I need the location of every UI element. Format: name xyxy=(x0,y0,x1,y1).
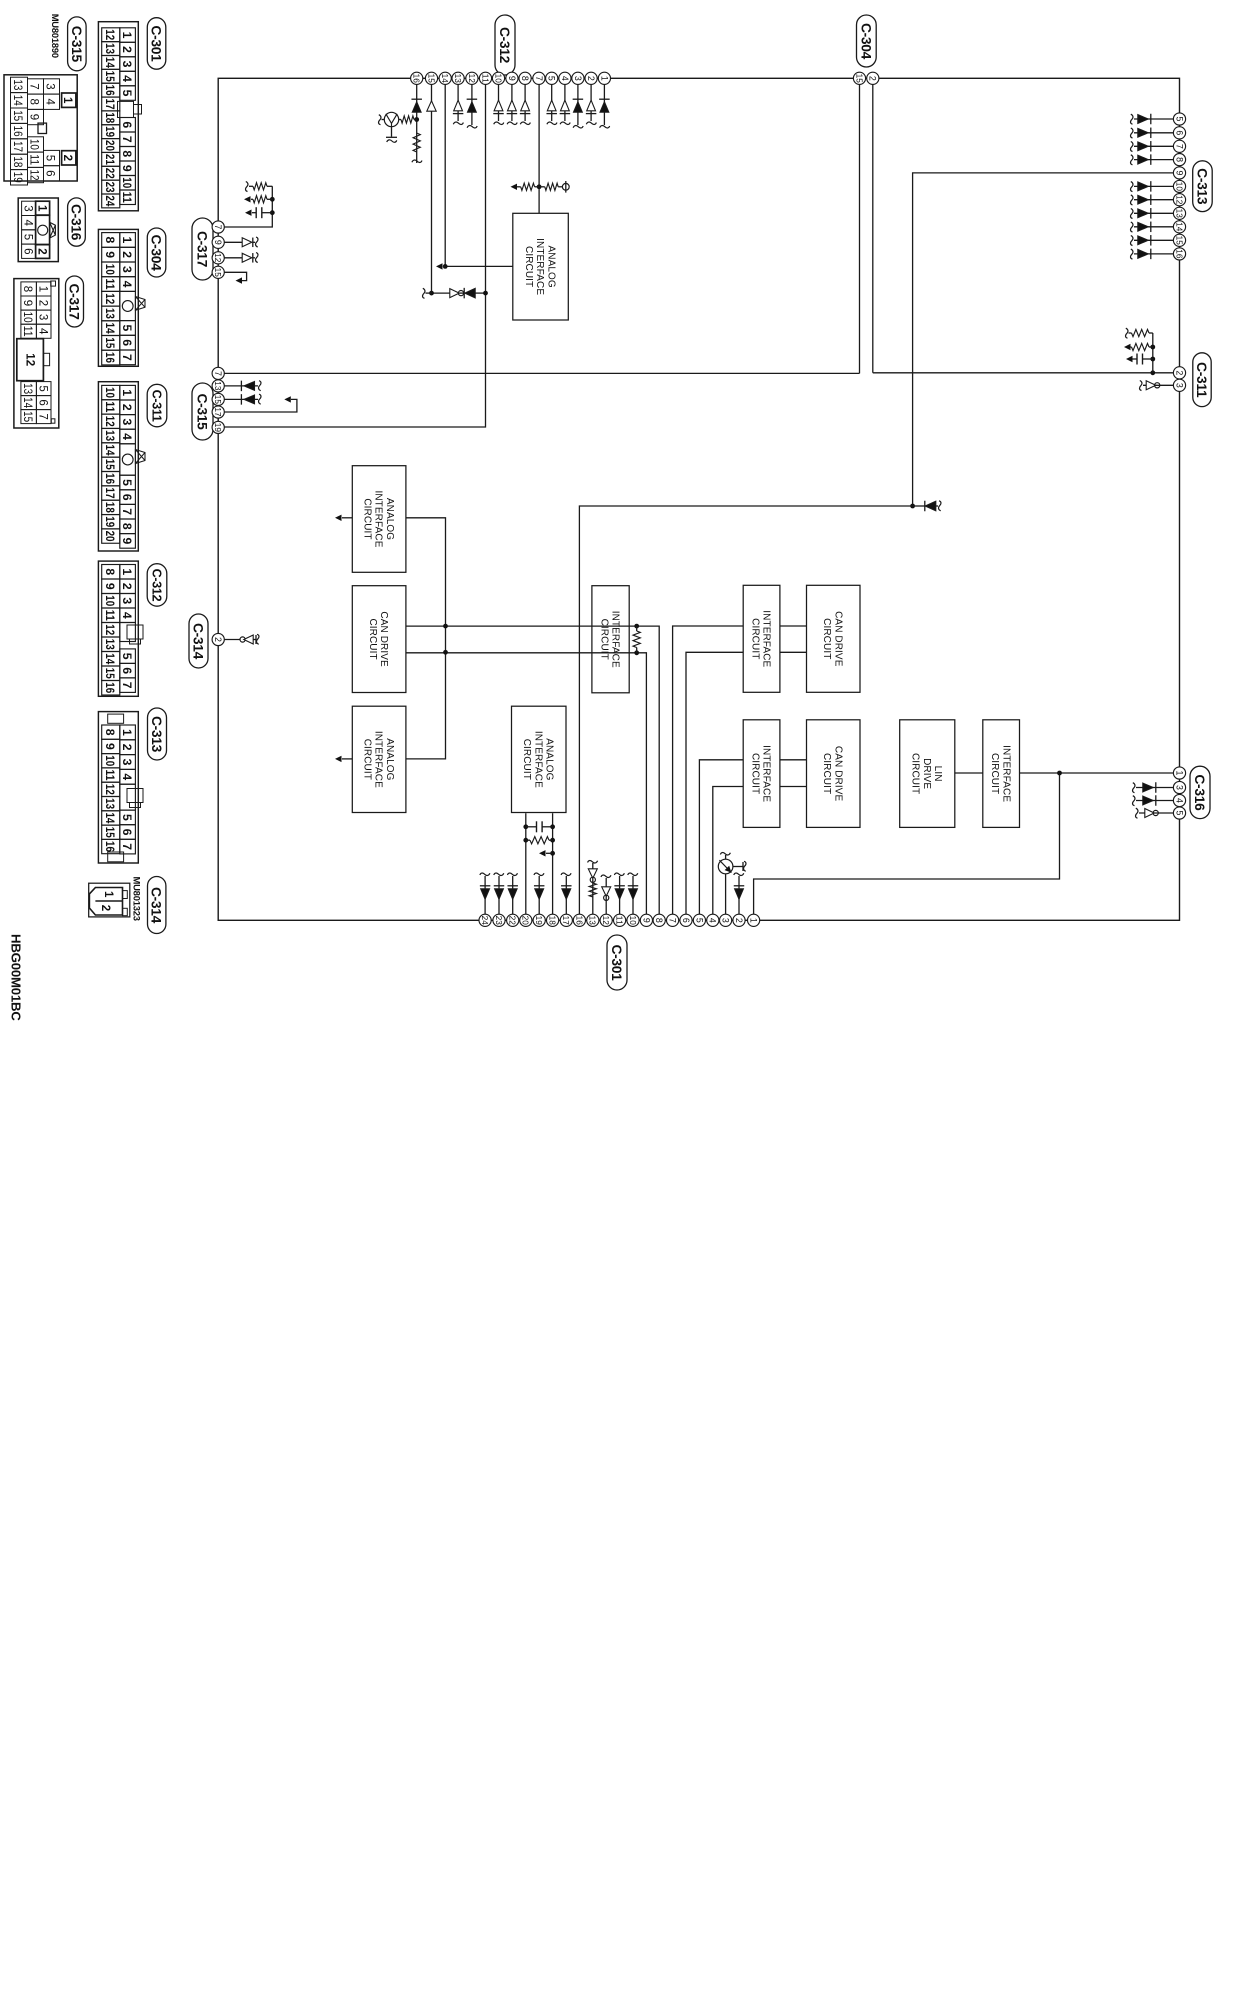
svg-text:12: 12 xyxy=(24,353,36,366)
svg-text:13: 13 xyxy=(103,639,117,650)
connector C-301 pin 19 xyxy=(533,914,545,926)
svg-text:12: 12 xyxy=(103,29,117,40)
svg-text:3: 3 xyxy=(573,76,583,81)
svg-text:CIRCUIT: CIRCUIT xyxy=(821,618,832,659)
svg-text:CIRCUIT: CIRCUIT xyxy=(521,739,532,780)
ESD diode D-C316-3 (to ground) xyxy=(1133,782,1174,793)
svg-text:19: 19 xyxy=(213,423,222,433)
page arrow under C3 xyxy=(245,210,252,216)
ESD diode D-C301-2 (to ground) xyxy=(734,873,745,915)
ground hook C-301 pin 19 xyxy=(534,873,544,875)
ESD diode D-C301-10 (to ground) xyxy=(628,873,639,915)
connector face diagram C-301 xyxy=(98,22,141,211)
svg-text:3: 3 xyxy=(120,419,134,426)
svg-text:22: 22 xyxy=(103,168,117,179)
svg-text:4: 4 xyxy=(120,433,134,440)
svg-text:14: 14 xyxy=(440,74,449,84)
svg-text:LIN: LIN xyxy=(932,766,943,782)
connector C-313 pin 9 xyxy=(1173,167,1185,179)
ground hook C-313 pin 12 xyxy=(1131,195,1133,205)
svg-text:CIRCUIT: CIRCUIT xyxy=(361,498,372,539)
connector C-312 pin 12 xyxy=(466,72,478,84)
diagram code MU801890 xyxy=(50,14,61,58)
svg-text:HBG00M01BC: HBG00M01BC xyxy=(9,934,24,1021)
svg-text:7: 7 xyxy=(213,225,223,230)
ESD diode D-C313-12 (to ground) xyxy=(1131,194,1174,205)
svg-text:24: 24 xyxy=(103,195,117,206)
junction node on C-312 pin 7 wire xyxy=(537,184,542,189)
svg-text:2: 2 xyxy=(1174,370,1184,375)
zener with circle on C-316 pin 5 xyxy=(1136,808,1174,818)
junction node chain top xyxy=(483,291,488,296)
ESD diode D-C313-13 (to ground) xyxy=(1131,208,1174,219)
ground hook C-315 pin 15 xyxy=(259,394,261,404)
svg-text:5: 5 xyxy=(694,918,704,923)
svg-text:CIRCUIT: CIRCUIT xyxy=(361,739,372,780)
U5 interface circuit xyxy=(592,586,629,693)
zener Z-C317-9 xyxy=(224,237,258,247)
junction node CAN-L at termination resistor xyxy=(634,650,639,655)
svg-text:C-304: C-304 xyxy=(858,23,873,60)
wire C-301 pin 18 to analog interface circuit U8 xyxy=(552,813,554,915)
connector C-316 label (ECU side) xyxy=(1190,766,1210,818)
connector C-313 pin 8 xyxy=(1173,154,1185,166)
svg-text:5: 5 xyxy=(21,234,33,240)
svg-text:13: 13 xyxy=(103,43,117,54)
signal triangle on C-312 pin 15 wire xyxy=(427,101,436,111)
svg-text:10: 10 xyxy=(21,312,33,323)
svg-text:10: 10 xyxy=(493,74,502,84)
ESD zener Z-C312-13 (to ground) xyxy=(453,84,464,124)
connector C-301 pin 7 xyxy=(666,914,678,926)
ground hook C-312 pin 9 xyxy=(507,122,517,124)
svg-text:3: 3 xyxy=(44,83,56,89)
diode D-IG (tip toward junction) xyxy=(913,501,941,512)
wire C-301 pin 20 to analog interface circuit U8 xyxy=(525,813,527,915)
svg-text:9: 9 xyxy=(103,583,117,590)
svg-text:3: 3 xyxy=(721,918,731,923)
svg-text:17: 17 xyxy=(213,407,222,417)
resistor R8 across U8 outputs xyxy=(523,837,555,844)
connector C-301 pin 1 xyxy=(748,914,760,926)
connector face diagram C-313 xyxy=(98,712,143,863)
svg-text:16: 16 xyxy=(103,682,117,693)
svg-text:8: 8 xyxy=(103,237,117,244)
svg-text:1: 1 xyxy=(120,729,134,736)
svg-text:2: 2 xyxy=(120,251,134,258)
ground hook C-313 pin 14 xyxy=(1131,222,1133,232)
junction + page arrow on C-301 pin 18 wire xyxy=(539,850,555,856)
svg-text:6: 6 xyxy=(120,121,134,128)
svg-text:14: 14 xyxy=(1174,222,1183,232)
wire C-304 pin 15 to C-315 pin 7 xyxy=(224,84,860,373)
ESD diode D-C312-3 (to ground) xyxy=(573,84,584,128)
svg-text:CIRCUIT: CIRCUIT xyxy=(989,753,1000,794)
diagram code MU801323 xyxy=(132,877,143,921)
svg-text:C-313: C-313 xyxy=(1194,168,1209,205)
svg-text:11: 11 xyxy=(21,326,33,337)
connector C-312 pin 4 xyxy=(559,72,571,84)
connector C-312 pin 8 xyxy=(519,72,531,84)
svg-text:CAN DRIVE: CAN DRIVE xyxy=(378,611,389,667)
svg-text:4: 4 xyxy=(120,75,134,82)
svg-text:1: 1 xyxy=(120,32,134,39)
svg-text:2: 2 xyxy=(868,76,878,81)
ground hook C-313 pin 5 xyxy=(1131,114,1133,124)
svg-text:15: 15 xyxy=(426,74,435,84)
ESD diode D-C301-23 (to ground) xyxy=(494,873,505,915)
svg-text:INTERFACE: INTERFACE xyxy=(373,490,384,547)
U7 CAN drive circuit xyxy=(807,585,861,692)
ground hook C-315 pin 13 xyxy=(259,381,261,391)
svg-text:2: 2 xyxy=(120,46,134,53)
svg-text:6: 6 xyxy=(120,339,134,346)
ground hook C-313 pin 16 xyxy=(1131,249,1133,259)
junction node C-312 pin 14 wire xyxy=(443,264,448,269)
ground hook C-301 pin 22 xyxy=(508,873,518,875)
ESD diode D-C312-12 (to ground) xyxy=(467,84,478,128)
svg-text:12: 12 xyxy=(601,916,610,926)
svg-text:13: 13 xyxy=(453,74,462,84)
connector C-315 label (ECU side) xyxy=(192,383,213,440)
svg-text:8: 8 xyxy=(28,98,40,104)
capacitor C1 (filter) xyxy=(1126,354,1155,365)
connector C-314 face label xyxy=(148,877,166,934)
svg-text:11: 11 xyxy=(103,401,117,412)
svg-text:23: 23 xyxy=(103,182,117,193)
svg-text:7: 7 xyxy=(120,136,134,143)
svg-text:C-315: C-315 xyxy=(69,26,84,63)
svg-text:4: 4 xyxy=(1174,798,1184,803)
svg-text:13: 13 xyxy=(103,798,117,809)
wire C-312 pin 14 to analog interface circuit U1 xyxy=(445,84,513,266)
svg-text:12: 12 xyxy=(213,253,222,263)
ground hook C-301 pin 24 xyxy=(480,873,490,875)
junction node IG net xyxy=(910,504,915,509)
svg-text:14: 14 xyxy=(103,653,117,664)
svg-text:9: 9 xyxy=(120,165,134,172)
connector C-312 face label xyxy=(147,564,167,607)
svg-text:1: 1 xyxy=(120,389,134,396)
CAN-H wire C-301 pin 8 through U5 to CAN drive circuit U3 xyxy=(406,626,659,915)
protection ladder between C-312 pin 11 and pin 15 nets xyxy=(432,288,486,299)
ESD zener Z-C312-4 (to ground) xyxy=(560,84,571,124)
ground hook C-301 pin 2 xyxy=(734,873,744,875)
zener with circle on C-301 pin 12 xyxy=(601,875,611,915)
ground hook C-313 pin 10 xyxy=(1131,182,1133,192)
ground hook C-312 pin 4 xyxy=(560,122,570,124)
hook left of Q2 xyxy=(720,853,730,855)
svg-text:18: 18 xyxy=(548,916,557,926)
RC filter bus wire xyxy=(1152,333,1154,373)
svg-text:2: 2 xyxy=(213,637,223,642)
junction node CAN-H at termination resistor xyxy=(634,624,639,629)
svg-text:14: 14 xyxy=(21,397,33,409)
svg-text:INTERFACE: INTERFACE xyxy=(761,610,772,667)
ESD diode D-C301-17 (to ground) xyxy=(561,873,572,915)
ESD diode D-C301-24 (to ground) xyxy=(480,873,491,915)
connector C-316 pin 5 xyxy=(1173,807,1185,819)
svg-text:CAN DRIVE: CAN DRIVE xyxy=(832,611,843,667)
svg-text:1: 1 xyxy=(35,205,47,212)
connector C-313 pin 12 xyxy=(1173,194,1185,206)
ground hook after R3 xyxy=(412,160,422,162)
svg-text:16: 16 xyxy=(574,916,583,926)
connector C-316 pin 1 xyxy=(1173,767,1185,779)
svg-text:7: 7 xyxy=(1174,144,1184,149)
svg-text:23: 23 xyxy=(494,916,503,926)
connector C-312 pin 15 xyxy=(425,72,437,84)
connector C-301 pin 22 xyxy=(507,914,519,926)
svg-text:19: 19 xyxy=(11,172,23,183)
connector C-312 pin 10 xyxy=(492,72,504,84)
connector C-313 pin 14 xyxy=(1173,221,1185,233)
ESD diode D-C301-22 (to ground) xyxy=(507,873,518,915)
ground hook C-312 pin 10 xyxy=(494,122,504,124)
connector C-313 face label xyxy=(148,708,167,760)
connector C-301 pin 5 xyxy=(693,914,705,926)
svg-text:17: 17 xyxy=(103,98,117,109)
svg-text:1: 1 xyxy=(599,76,609,81)
ESD diode D-C313-16 (to ground) xyxy=(1131,249,1174,260)
ESD diode D-C313-14 (to ground) xyxy=(1131,222,1174,233)
connector C-313 pin 5 xyxy=(1173,113,1185,125)
svg-text:1: 1 xyxy=(61,97,73,104)
connector C-313 pin 10 xyxy=(1173,180,1185,192)
connector C-301 pin 13 xyxy=(587,914,599,926)
connector C-313 label (ECU side) xyxy=(1193,161,1213,212)
svg-text:CIRCUIT: CIRCUIT xyxy=(598,619,609,660)
svg-text:5: 5 xyxy=(120,814,134,821)
connector C-301 pin 3 xyxy=(720,914,732,926)
ESD zener Z-C312-8 (to ground) xyxy=(520,84,531,124)
ground hook C-313 pin 13 xyxy=(1131,209,1133,219)
ESD diode D-C313-8 (to ground) xyxy=(1131,154,1174,165)
svg-text:16: 16 xyxy=(103,841,117,852)
wire C-316 pin 1 to interface circuit U12 and C-301 pin 1 xyxy=(754,773,1174,915)
connector C-312 pin 13 xyxy=(452,72,464,84)
signal arrow on C-312 pin 14 branch xyxy=(436,263,445,269)
svg-text:2: 2 xyxy=(120,404,134,411)
svg-text:11: 11 xyxy=(480,74,489,84)
connector C-315 pin 19 xyxy=(212,421,224,433)
signal triangle with circle xyxy=(450,289,459,298)
ESD diode D-C313-6 (to ground) xyxy=(1131,128,1174,139)
svg-text:15: 15 xyxy=(103,827,117,838)
svg-text:MU801890: MU801890 xyxy=(50,14,61,58)
CAN-L wire C-301 pin 9 through U5 to CAN drive circuit U3 xyxy=(406,653,647,915)
svg-text:20: 20 xyxy=(103,140,117,151)
svg-text:C-311: C-311 xyxy=(150,390,164,422)
svg-text:ANALOG: ANALOG xyxy=(543,738,554,780)
svg-text:C-316: C-316 xyxy=(1192,774,1207,811)
svg-text:C-304: C-304 xyxy=(149,234,164,271)
svg-text:7: 7 xyxy=(28,83,40,89)
page arrow under R6 xyxy=(1124,344,1131,350)
connector face diagram C-317 xyxy=(14,279,59,428)
svg-text:C-312: C-312 xyxy=(497,27,512,64)
svg-text:6: 6 xyxy=(120,494,134,501)
svg-text:7: 7 xyxy=(36,413,48,419)
ground hook below Q1 xyxy=(382,119,385,121)
svg-text:14: 14 xyxy=(11,95,23,107)
svg-text:20: 20 xyxy=(103,531,117,542)
svg-text:INTERFACE: INTERFACE xyxy=(534,238,545,295)
connector C-317 pin 9 xyxy=(212,236,224,248)
ESD diode D-C316-4 (to ground) xyxy=(1133,795,1174,806)
connector C-301 pin 24 xyxy=(479,914,491,926)
svg-text:CIRCUIT: CIRCUIT xyxy=(749,753,760,794)
svg-text:6: 6 xyxy=(1174,130,1184,135)
ground hook C-301 pin 23 xyxy=(494,873,504,875)
connector C-311 pin 3 xyxy=(1173,379,1185,391)
U3 CAN drive circuit xyxy=(352,586,406,693)
connector C-313 pin 15 xyxy=(1173,234,1185,246)
svg-text:16: 16 xyxy=(103,473,117,484)
connector C-301 label (ECU side) xyxy=(607,935,627,990)
wire C-304 pin 2 to C-311 pin 2 (battery feed) xyxy=(873,84,1174,373)
svg-text:4: 4 xyxy=(44,98,56,105)
wire C-317 pin 15 with page arrow xyxy=(224,272,247,284)
sheet code HBG00M01BC xyxy=(9,934,24,1021)
wire C-312 pin 7 to analog interface circuit U1 xyxy=(538,84,540,213)
connector C-301 face label xyxy=(147,18,166,69)
svg-text:2: 2 xyxy=(35,248,47,254)
svg-text:10: 10 xyxy=(28,139,40,150)
svg-text:11: 11 xyxy=(120,192,134,203)
svg-text:16: 16 xyxy=(103,85,117,96)
connector C-315 pin 15 xyxy=(212,393,224,405)
ground hook C-313 pin 15 xyxy=(1131,236,1133,246)
ESD diode D-C301-19 (to ground) xyxy=(534,873,545,915)
svg-text:12: 12 xyxy=(467,74,476,84)
ground hook below chain xyxy=(423,288,432,298)
svg-text:21: 21 xyxy=(103,154,117,165)
svg-text:4: 4 xyxy=(120,281,134,288)
connector C-304 pin 15 xyxy=(853,72,865,84)
wire C-301 pin 7 to interface circuit U6 xyxy=(673,626,744,915)
svg-text:6: 6 xyxy=(44,170,56,176)
connector C-301 pin 20 xyxy=(520,914,532,926)
svg-text:13: 13 xyxy=(11,79,23,90)
svg-text:INTERFACE: INTERFACE xyxy=(610,611,621,668)
connector C-301 pin 16 xyxy=(573,914,585,926)
transistor Q2 on C-301 pin 3 xyxy=(718,853,746,915)
U4 analog interface circuit xyxy=(352,706,406,812)
connector C-312 pin 3 xyxy=(572,72,584,84)
zener with circle on C-314 pin 2 xyxy=(224,634,259,644)
svg-text:11: 11 xyxy=(103,770,117,781)
svg-text:5: 5 xyxy=(120,325,134,332)
ground hook C-317 pin 12 xyxy=(253,257,255,259)
ETACS-ECU main box outline xyxy=(218,78,1179,920)
ground hook C-317 pin 9 xyxy=(253,241,255,243)
resistor R10 (filter) xyxy=(244,196,275,203)
ground hook C-312 pin 5 xyxy=(547,122,557,124)
svg-text:CIRCUIT: CIRCUIT xyxy=(523,246,534,287)
svg-text:C-314: C-314 xyxy=(191,623,206,660)
svg-text:19: 19 xyxy=(534,916,543,926)
page arrow under C1 xyxy=(1126,356,1133,362)
svg-text:2: 2 xyxy=(36,300,48,306)
zener Z-C317-12 xyxy=(224,253,258,263)
svg-text:CAN DRIVE: CAN DRIVE xyxy=(832,746,843,802)
page arrow below U2 xyxy=(335,515,352,521)
page arrow below U4 xyxy=(335,756,352,762)
svg-text:2: 2 xyxy=(734,918,744,923)
svg-text:2: 2 xyxy=(586,76,596,81)
svg-text:2: 2 xyxy=(61,155,73,161)
connector C-304 pin 2 xyxy=(867,72,879,84)
svg-text:7: 7 xyxy=(534,76,544,81)
svg-text:C-314: C-314 xyxy=(149,887,164,924)
ground hook C-313 pin 6 xyxy=(1131,128,1133,138)
svg-text:14: 14 xyxy=(103,444,117,455)
junction node U2 net / CAN-H xyxy=(443,624,448,629)
svg-text:2: 2 xyxy=(120,744,134,751)
connector C-301 pin 23 xyxy=(493,914,505,926)
svg-text:19: 19 xyxy=(103,516,117,527)
page arrow under R10 xyxy=(244,196,251,202)
resistor R3 on C-312 pin 16 xyxy=(413,133,420,152)
svg-text:12: 12 xyxy=(1174,195,1183,205)
svg-text:15: 15 xyxy=(213,395,222,405)
connector C-316 pin 4 xyxy=(1173,794,1185,806)
svg-text:17: 17 xyxy=(561,916,570,926)
svg-text:10: 10 xyxy=(103,595,117,606)
connector C-314 label (ECU side) xyxy=(189,614,208,668)
svg-text:6: 6 xyxy=(120,829,134,836)
connector C-317 pin 15 xyxy=(212,266,224,278)
connector C-316 face label xyxy=(68,198,86,246)
svg-text:16: 16 xyxy=(1174,249,1183,259)
junction node chain bottom xyxy=(429,291,434,296)
connector C-312 pin 1 xyxy=(598,72,610,84)
wire U11 to U12 (LIN) xyxy=(955,772,983,774)
wire C-301 pin 5 to interface circuit U9 xyxy=(699,760,743,915)
connector C-315 face label xyxy=(68,17,87,71)
svg-text:CIRCUIT: CIRCUIT xyxy=(821,753,832,794)
ground hook C-313 pin 8 xyxy=(1131,155,1133,165)
svg-text:18: 18 xyxy=(103,112,117,123)
wire C-301 pin 4 to interface circuit U9 xyxy=(713,787,743,915)
svg-text:INTERFACE: INTERFACE xyxy=(373,731,384,788)
ground hook C-312 pin 8 xyxy=(520,122,530,124)
svg-text:13: 13 xyxy=(103,308,117,319)
svg-text:5: 5 xyxy=(547,76,557,81)
svg-text:8: 8 xyxy=(1174,157,1184,162)
connector C-317 pin 12 xyxy=(212,252,224,264)
connector C-315 pin 17 xyxy=(212,406,224,418)
svg-text:15: 15 xyxy=(11,110,23,121)
U6 interface circuit xyxy=(743,585,780,692)
svg-text:17: 17 xyxy=(103,488,117,499)
ground hook C-316 pin 3 xyxy=(1133,783,1135,793)
svg-text:11: 11 xyxy=(615,916,624,926)
svg-text:4: 4 xyxy=(120,773,134,780)
junction node C-312 pin 16 xyxy=(414,117,419,122)
ESD diode D-C312-16 xyxy=(411,98,422,100)
wire C-301 pin 6 to interface circuit U6 xyxy=(686,652,743,915)
connector C-317 pin 7 xyxy=(212,221,224,233)
svg-text:3: 3 xyxy=(120,266,134,273)
resistor R9 (filter) xyxy=(246,182,273,192)
svg-text:5: 5 xyxy=(120,653,134,660)
svg-text:12: 12 xyxy=(28,170,40,181)
resistor R4 to transistor Q1 xyxy=(399,116,417,123)
ground hook C-301 pin 17 xyxy=(561,873,571,875)
connector C-312 pin 11 xyxy=(479,72,491,84)
